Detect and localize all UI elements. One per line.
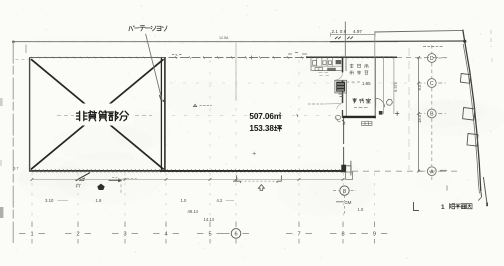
grid A dashed extension	[352, 170, 460, 172]
rotated dim 18.0	[417, 114, 422, 123]
east room wall	[374, 58, 376, 119]
boundary tick	[440, 169, 447, 171]
svg-text:1.0: 1.0	[181, 198, 187, 203]
svg-text:4.2: 4.2	[217, 198, 223, 203]
entrance bracket	[233, 175, 281, 183]
east corridor line 1	[382, 58, 384, 114]
tiny marks cluster left	[172, 54, 181, 56]
central wall lowest	[342, 110, 344, 118]
office tiny sublabel	[354, 107, 368, 109]
washroom fixtures	[313, 61, 332, 66]
scan smudge left edge 3	[0, 160, 2, 166]
frame corner blob	[12, 41, 14, 43]
grid B faint dashed line	[57, 115, 74, 117]
faint broken vertical far right	[490, 30, 492, 47]
small tick below A	[446, 186, 448, 191]
frame left line	[12, 42, 14, 243]
washroom stall partitions	[317, 58, 333, 67]
east dark fixture	[379, 111, 383, 115]
floor tiny triangle mark	[194, 104, 197, 106]
svg-text:5: 5	[208, 232, 211, 238]
hatch legend box	[362, 122, 373, 126]
grid marker 9	[373, 222, 375, 228]
svg-text:8: 8	[343, 189, 346, 195]
stair lower marks	[339, 94, 344, 97]
svg-text:6: 6	[234, 232, 237, 238]
top wall faint left extension	[16, 58, 29, 60]
grid marker 3	[124, 222, 126, 228]
lower wall vertical	[343, 118, 345, 166]
top wall dark segment left	[29, 57, 166, 59]
frame left inner tick	[25, 45, 27, 54]
neighbor structure 3	[467, 134, 478, 147]
svg-text:9.0: 9.0	[417, 84, 422, 90]
tiny dashes right of arrow	[123, 178, 137, 180]
grid marker D	[427, 54, 436, 63]
office south dark wall	[343, 116, 376, 118]
partition double wall	[160, 58, 162, 171]
grid marker 8	[342, 222, 344, 228]
svg-text:1.8: 1.8	[358, 207, 364, 212]
grid D dashed extension	[397, 57, 448, 59]
building bottom wall	[29, 170, 345, 172]
site boundary inner parallel line	[463, 44, 478, 186]
svg-text:2.1: 2.1	[332, 29, 339, 34]
faint vertical extension line	[408, 48, 410, 170]
svg-text:D: D	[430, 56, 434, 62]
svg-text:8: 8	[341, 232, 344, 238]
svg-text:18.0: 18.0	[417, 114, 422, 123]
right dim ticks	[417, 56, 420, 172]
svg-text:FT: FT	[76, 183, 82, 188]
bottom wall darkest segment	[160, 170, 345, 172]
partition leader arrowhead	[159, 95, 162, 100]
svg-text:1.65: 1.65	[362, 81, 371, 86]
bottom wall end dark blob	[341, 165, 346, 173]
tiny text above D	[423, 46, 443, 48]
building left wall	[29, 58, 31, 171]
circled grid 8 gas	[340, 186, 349, 195]
stair shaft outline	[335, 80, 347, 93]
svg-text:2: 2	[279, 111, 282, 116]
stray mark right of area text	[297, 114, 298, 117]
tiny marks near arrow	[112, 177, 117, 179]
top wall hatching	[31, 56, 393, 59]
site boundary top edge	[375, 30, 463, 32]
washroom under marks	[319, 73, 329, 76]
grid marker 7	[298, 222, 300, 228]
grid marker A	[427, 167, 436, 176]
scan smudge left edge 2	[0, 98, 3, 106]
label partition (katakana)	[129, 26, 134, 31]
grid marker B	[427, 109, 436, 118]
dim tick slashes B	[347, 37, 353, 39]
bottom dimension line	[32, 178, 345, 180]
svg-text:A: A	[430, 169, 434, 175]
building top wall	[29, 57, 397, 59]
neighbor structure 2	[463, 108, 475, 121]
washroom lower dark marks	[327, 68, 336, 71]
svg-text:12.5A: 12.5A	[219, 36, 229, 40]
svg-text:1: 1	[441, 204, 445, 211]
grid 9 extension line	[374, 31, 376, 57]
svg-text:7: 7	[297, 232, 300, 238]
office label jimushitsu	[353, 98, 357, 103]
svg-text:9: 9	[373, 232, 376, 238]
grid marker 6	[235, 222, 237, 228]
svg-text:B: B	[430, 112, 434, 118]
grid marker 1	[31, 222, 33, 228]
site boundary lower continuation	[480, 191, 483, 197]
svg-text:507.06m: 507.06m	[249, 112, 281, 121]
top wall plus mark	[250, 56, 254, 60]
central wall door gap 2	[337, 104, 343, 110]
tiny marks above wall	[288, 53, 307, 55]
lower vertical grid extension dashes	[31, 173, 33, 227]
svg-text:3.10: 3.10	[45, 198, 54, 203]
lower wall step	[346, 161, 351, 176]
floor mark mid	[253, 152, 256, 155]
dim tick slashes A	[335, 37, 341, 39]
title corner bracket	[414, 202, 420, 211]
label background knockout	[71, 104, 134, 126]
washroom lower fixtures	[315, 68, 323, 71]
svg-text:153.38: 153.38	[249, 124, 274, 133]
top wall middle ticks	[175, 56, 303, 59]
grid marker 5	[209, 222, 211, 228]
GM label	[336, 201, 344, 203]
stair shaft dark fill	[336, 82, 345, 92]
top dimension line	[331, 34, 376, 36]
central wall parallel lower	[345, 93, 347, 117]
fixture pentagon	[98, 184, 104, 189]
dashed vert at arrow	[120, 179, 122, 193]
tiny label with leader left	[308, 103, 323, 105]
site boundary rightmost segment	[483, 177, 487, 205]
east corridor line 2	[393, 58, 395, 114]
central wall mid	[342, 80, 344, 103]
central wall door gap arc	[336, 73, 342, 79]
right dim line	[418, 58, 420, 172]
bottom dim ticks	[31, 178, 345, 181]
grid 8 extension above frame	[344, 22, 346, 58]
grid marker C	[427, 79, 436, 88]
svg-text:4.97: 4.97	[353, 29, 362, 34]
svg-text:1.8: 1.8	[96, 198, 102, 203]
central wall parallel upper	[345, 58, 347, 71]
neighbor structure 1	[460, 74, 470, 84]
site boundary right slanted edge	[463, 30, 481, 191]
svg-text:2: 2	[76, 232, 79, 238]
svg-text:GM: GM	[344, 200, 351, 205]
frame top dark right segment	[330, 40, 465, 43]
svg-text:9.375: 9.375	[393, 81, 398, 92]
door arcs lower	[336, 117, 341, 122]
office door arc	[376, 98, 385, 107]
floor tiny text marks	[200, 105, 212, 107]
door swing tick	[79, 178, 84, 181]
top wall middle breakup	[166, 57, 306, 59]
door leaf bottom-left	[76, 173, 90, 181]
meter box below wall	[346, 172, 353, 179]
kitchenette label line2	[350, 71, 353, 75]
right grid vertical connector	[431, 45, 433, 53]
scan smudge left edge 1	[0, 207, 3, 218]
grid marker 4	[165, 222, 167, 228]
X diagonal 1	[31, 59, 164, 169]
svg-text:14.14: 14.14	[204, 217, 215, 222]
frame top line tick marks	[37, 41, 39, 43]
grid C faint dashed line	[170, 82, 408, 84]
svg-text:49.14: 49.14	[188, 209, 199, 214]
bottom wall hatching	[31, 169, 345, 172]
grid 6 solid segment below wall	[235, 43, 237, 102]
svg-text:C: C	[430, 81, 434, 87]
X diagonal 2	[31, 59, 164, 169]
partition leader line	[146, 34, 162, 100]
svg-text:3: 3	[123, 232, 126, 238]
washroom block outline	[311, 58, 342, 71]
svg-text:3.7: 3.7	[13, 165, 18, 170]
label hi-chintai-bubun (non-rental)	[77, 111, 87, 120]
sink hexagon	[386, 99, 392, 105]
dashed partition 1.65	[346, 81, 361, 83]
entrance up arrow	[258, 185, 264, 191]
small arrow right	[109, 179, 119, 181]
rotated dim 9.375	[393, 81, 398, 92]
svg-text:1: 1	[30, 232, 33, 238]
grid marker 2	[77, 222, 79, 228]
svg-text:4: 4	[164, 232, 167, 238]
central wall upper	[342, 58, 344, 73]
gas dashes below	[344, 196, 346, 201]
boundary junction node	[463, 40, 466, 43]
frame top line	[13, 41, 398, 43]
kitchenette label line1	[350, 64, 353, 68]
rotated dim 9.0	[417, 84, 422, 90]
top wall dark segment right	[306, 56, 397, 58]
leader junction dot	[163, 100, 165, 102]
east cross mark	[395, 111, 399, 115]
interior vertical grid dashes	[209, 60, 211, 169]
